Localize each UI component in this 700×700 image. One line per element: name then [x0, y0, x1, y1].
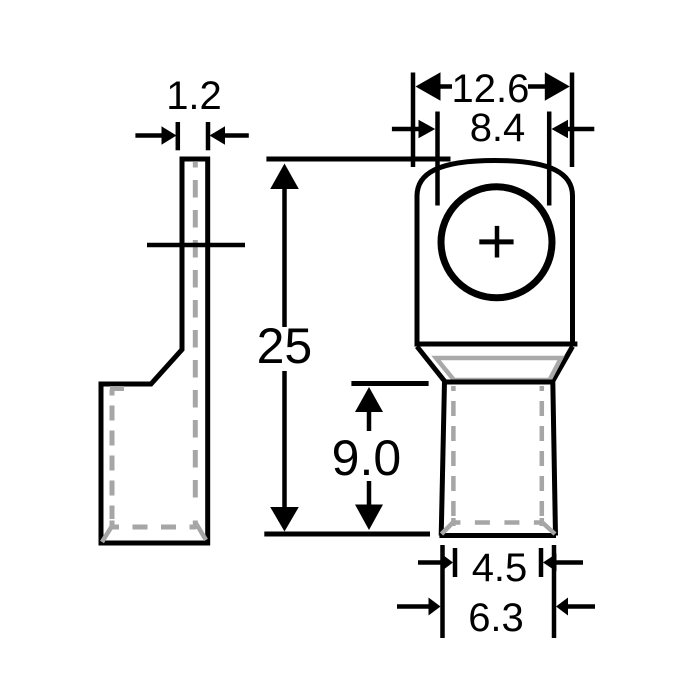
barrel inner dashed bottom: [453, 520, 541, 525]
dimension 1.2 left leader line: [135, 133, 162, 138]
dimension 8.4 right leader line: [568, 127, 595, 132]
dimension 9.0 top reference line: [351, 381, 428, 386]
dimension 8.4 left extension line: [435, 112, 440, 206]
dimension 1.2 right leader line: [225, 133, 249, 138]
left view inner corner stub bottom-right: [193, 521, 198, 530]
left view dashed inner bottom: [110, 525, 196, 530]
barrel bottom edge: [439, 533, 556, 538]
front view ring body outline: [417, 161, 573, 347]
left view hidden (dashed) centerline of strip: [193, 162, 198, 506]
dimension 8.4 right extension line: [547, 112, 552, 206]
dimension 6.3 left arrowhead: [429, 598, 441, 616]
dimension 12.6 left arrowhead: [416, 72, 441, 101]
hole center cross vertical: [495, 226, 500, 258]
svg-text:12.6: 12.6: [451, 67, 529, 111]
barrel top edge: [443, 380, 555, 385]
svg-text:8.4: 8.4: [470, 106, 526, 150]
dimension 12.6 left extension line: [411, 73, 416, 168]
dimension 25 line lower segment: [282, 371, 287, 508]
dimension 4.5 right extension tick: [539, 548, 544, 577]
dimension 9.0 down arrowhead: [355, 505, 383, 531]
barrel left side: [441, 381, 444, 536]
left view gray corner diagonal bottom-left: [102, 526, 112, 542]
dimension 8.4 right arrowhead: [552, 120, 569, 138]
barrel inner dashed left: [451, 386, 456, 516]
dimension 1.2 right extension tick: [206, 122, 211, 150]
svg-text:4.5: 4.5: [472, 546, 528, 590]
barrel right side: [553, 381, 556, 536]
dimension 6.3 left extension line: [440, 545, 445, 638]
left side view outline: [101, 159, 208, 543]
svg-text:1.2: 1.2: [166, 74, 222, 118]
svg-text:25: 25: [257, 318, 313, 374]
dimension 4.5 left extension tick: [453, 548, 458, 577]
barrel gray corner diagonal bottom-right: [542, 522, 555, 534]
dimension 25 down arrowhead: [270, 507, 299, 532]
dimension 4.5 left leader line: [418, 560, 442, 565]
transition right slant: [553, 347, 573, 382]
dimension 8.4 left leader line: [392, 127, 419, 132]
dimension 4.5 left arrowhead: [441, 554, 453, 572]
barrel inner dashed right: [540, 386, 545, 516]
barrel inner corner stub bottom-left: [451, 518, 456, 526]
barrel gray corner diagonal bottom-left: [442, 522, 454, 534]
section crossing line on strip: [147, 243, 245, 248]
front view palm bottom line: [415, 342, 578, 347]
barrel inner corner stub bottom-right: [540, 518, 545, 526]
dimension 6.3 left leader line: [397, 604, 429, 609]
dimension 9.0 line lower segment: [367, 481, 372, 505]
hole center cross horizontal: [479, 239, 513, 244]
dimension 1.2 left arrowhead: [162, 126, 177, 144]
dimension 12.6 right arrowhead: [545, 72, 570, 101]
svg-text:9.0: 9.0: [332, 430, 402, 486]
left view inner corner stub bottom-left: [110, 521, 115, 530]
dimension 4.5 right arrowhead: [543, 554, 557, 572]
dimension 25 bottom reference line: [264, 532, 430, 537]
dimension 6.3 right arrowhead: [556, 598, 568, 616]
dimension 8.4 left arrowhead: [419, 120, 436, 138]
left view dashed inner wall left: [110, 390, 115, 520]
transition gray funnel outline: [436, 358, 561, 380]
front view stud hole circle: [441, 187, 552, 298]
dimension 25 up arrowhead: [270, 164, 299, 190]
left view dashed inner top corner dash: [110, 386, 124, 391]
dimension 1.2 right arrowhead: [210, 126, 226, 144]
dimension 12.6 left line segment: [440, 84, 452, 89]
dimension 9.0 line upper segment: [367, 411, 372, 431]
dimension 4.5 right leader line: [556, 560, 583, 565]
dimension 6.3 right leader line: [568, 604, 596, 609]
transition left slant: [417, 347, 445, 382]
dimension 9.0 up arrowhead: [355, 387, 383, 412]
left view gray corner diagonal bottom-right: [196, 523, 207, 541]
dimension 6.3 right extension line: [552, 545, 557, 638]
dimension 25 line upper segment: [282, 188, 287, 327]
svg-text:6.3: 6.3: [468, 596, 524, 640]
dimension 25 top reference line: [266, 157, 450, 162]
dimension 12.6 right line segment: [528, 84, 545, 89]
dimension 12.6 right extension line: [570, 73, 575, 168]
dimension 1.2 left extension tick: [176, 122, 181, 150]
